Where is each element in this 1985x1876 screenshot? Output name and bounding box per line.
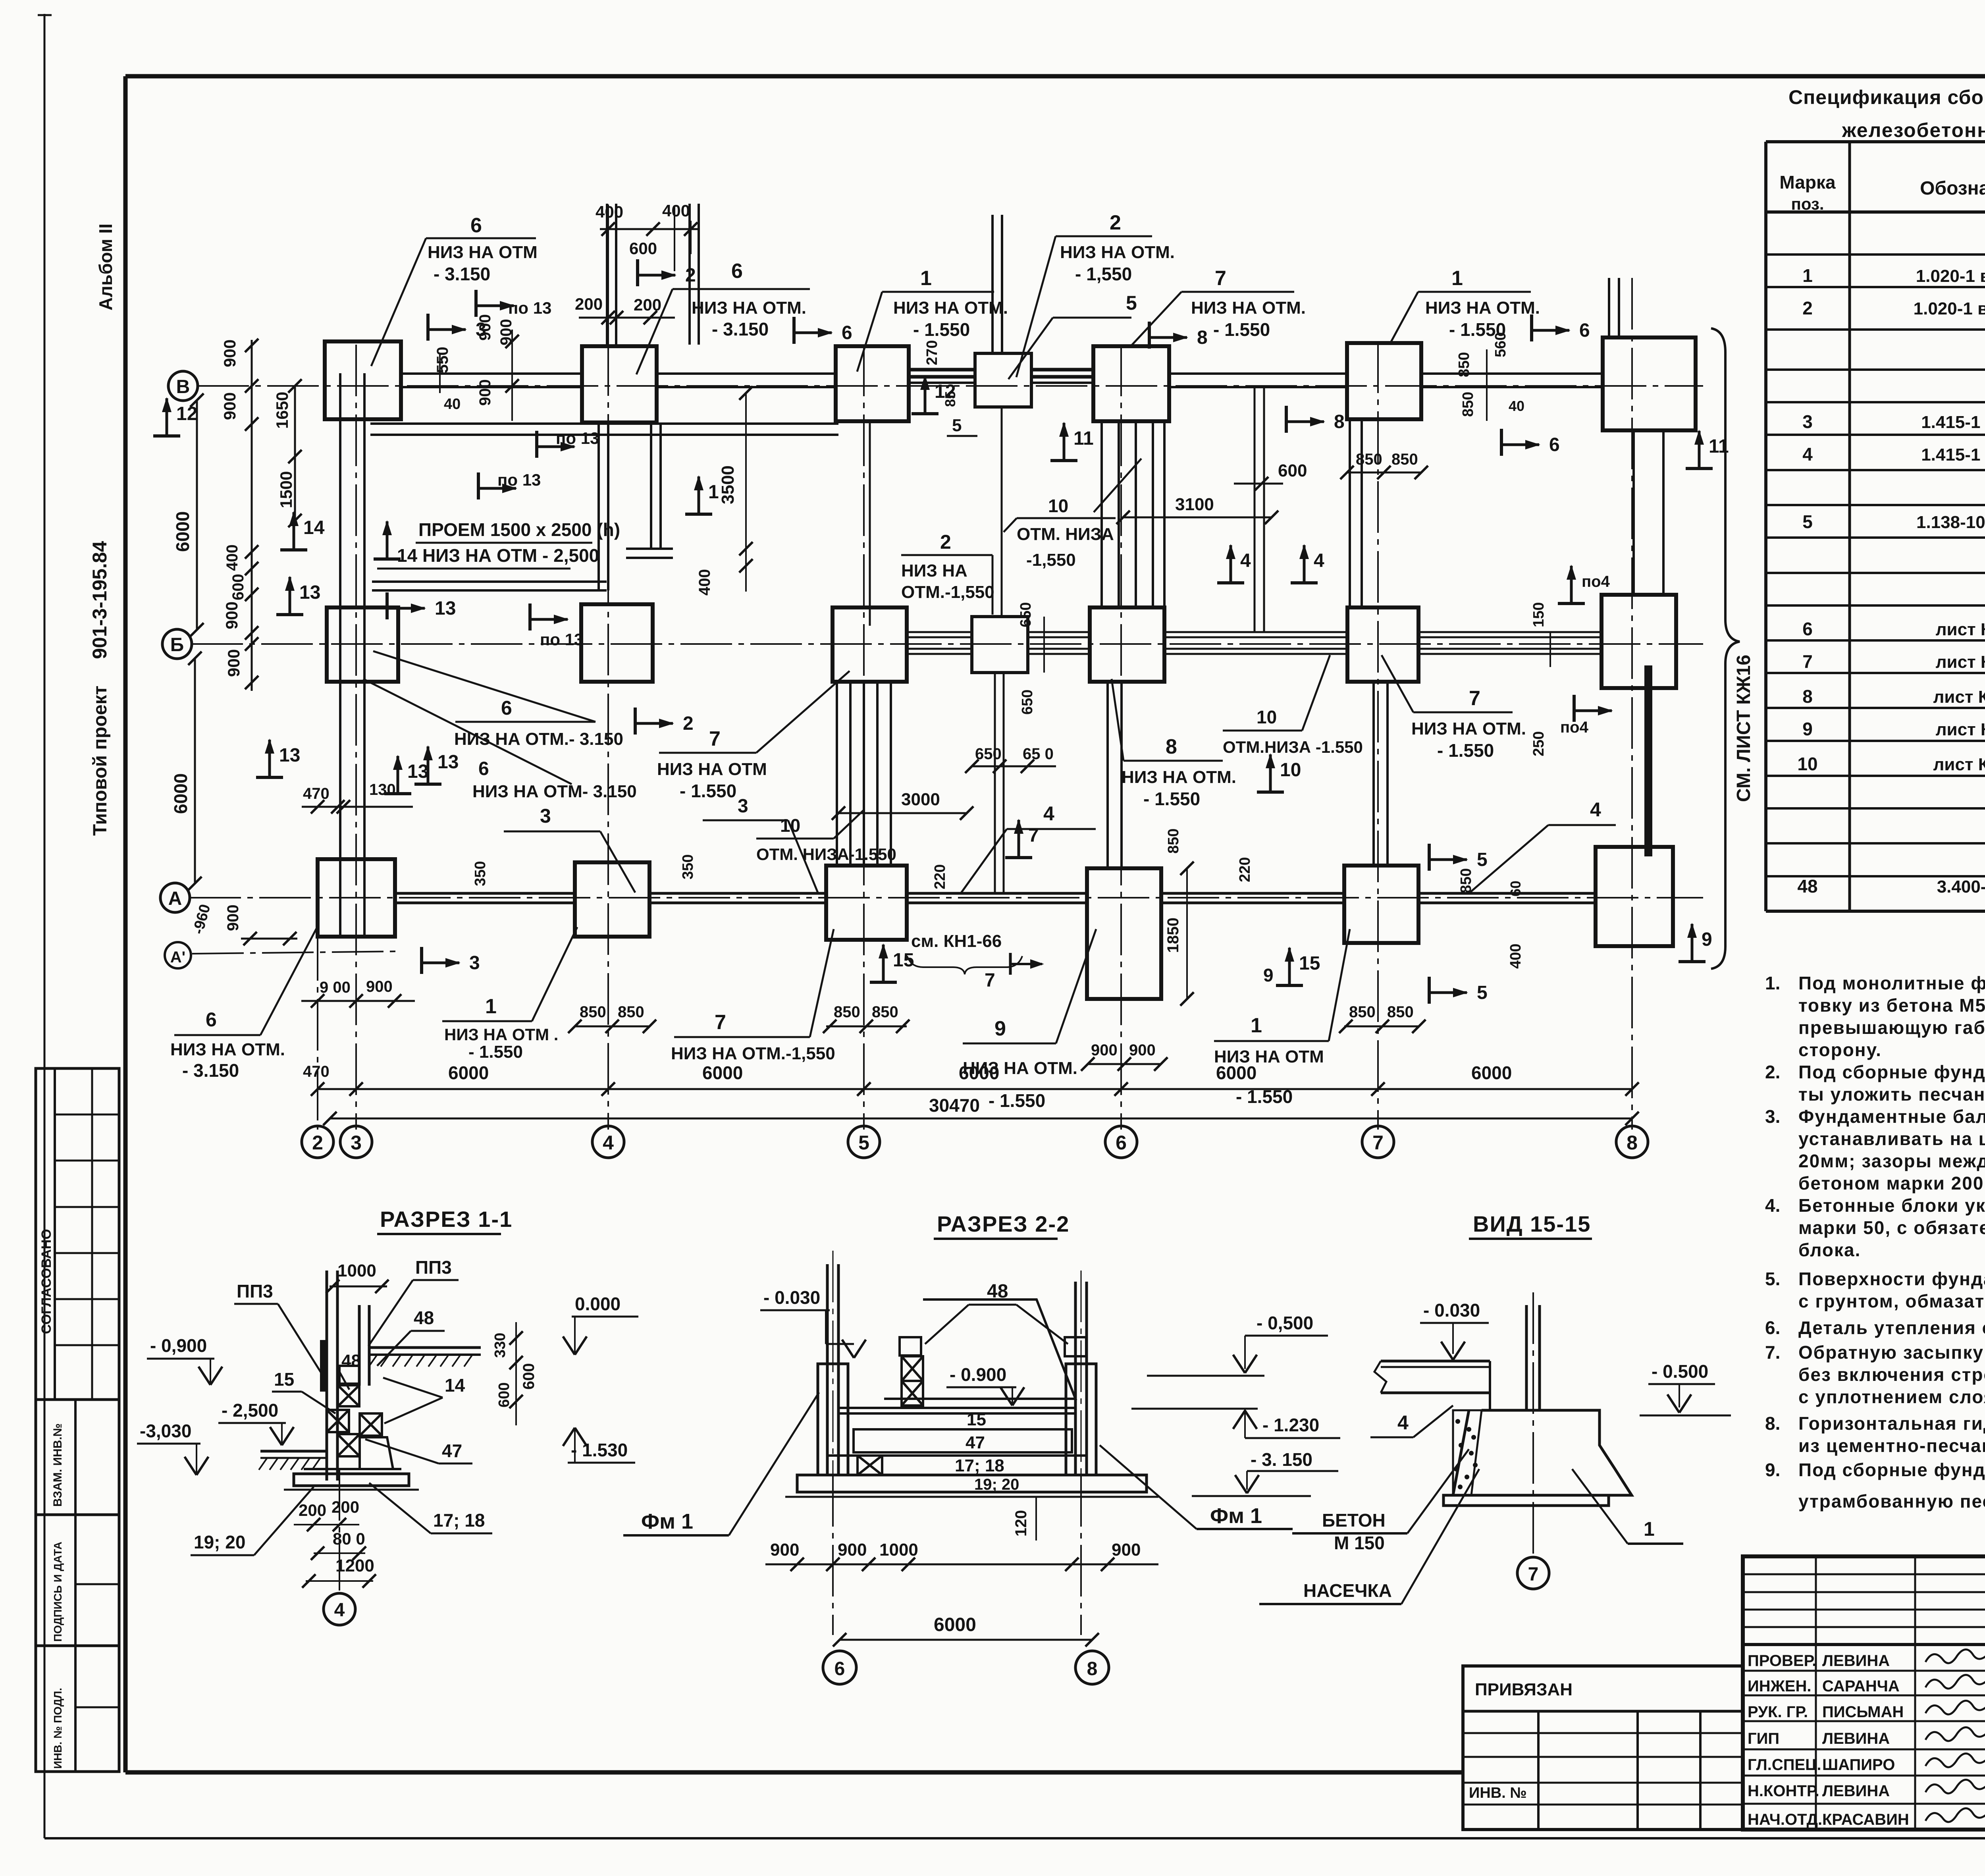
svg-text:- 1.550: - 1.550 [1143, 789, 1200, 809]
svg-text:13: 13 [279, 745, 300, 766]
dim 1850 rotated right of footing A6 [1186, 868, 1188, 999]
svg-text:1.415-1 вып. 1: 1.415-1 вып. 1 [1921, 445, 1985, 465]
wall along axis 3 double line [339, 373, 341, 937]
beams along axis A [395, 892, 575, 895]
svg-text:270: 270 [924, 340, 940, 365]
svg-text:- 0.030: - 0.030 [763, 1287, 820, 1308]
markers 5 right [1428, 844, 1431, 871]
svg-text:Фм 1: Фм 1 [641, 1510, 693, 1533]
svg-text:900: 900 [220, 339, 239, 367]
svg-text:11: 11 [1073, 428, 1094, 449]
svg-text:80 0: 80 0 [333, 1529, 365, 1548]
svg-text:6000: 6000 [1216, 1062, 1257, 1083]
section 2-2 right column [1074, 1282, 1077, 1475]
section 1-1 base slab [304, 1468, 401, 1470]
svg-text:КРАСАВИН: КРАСАВИН [1822, 1811, 1909, 1828]
beams along axis V [401, 372, 582, 375]
markers po4 right side [1558, 602, 1585, 605]
section 2-2 left column [826, 1264, 829, 1475]
svg-text:Б: Б [170, 634, 184, 656]
svg-text:5: 5 [1802, 511, 1813, 532]
svg-text:1000: 1000 [879, 1540, 918, 1560]
svg-text:5.: 5. [1765, 1269, 1780, 1289]
svg-text:А: А [168, 888, 182, 909]
svg-text:2: 2 [683, 713, 694, 734]
dim 3500 400 vertical right of room [745, 393, 747, 592]
section 2-2 slab 15 [838, 1407, 1075, 1409]
marker 6 right top [1530, 314, 1533, 341]
svg-text:400: 400 [696, 569, 713, 596]
svg-text:4: 4 [1314, 550, 1324, 571]
svg-text:2: 2 [685, 265, 696, 286]
svg-text:400: 400 [662, 201, 690, 220]
drawing frame left border [123, 76, 128, 1772]
svg-text:- 1.550: - 1.550 [913, 319, 970, 340]
svg-text:- 3.150: - 3.150 [434, 264, 490, 284]
axis line 3 [355, 345, 357, 1126]
svg-text:850: 850 [1391, 451, 1418, 468]
footing B/5 [833, 607, 907, 682]
svg-text:НИЗ НА ОТМ- 3.150: НИЗ НА ОТМ- 3.150 [472, 782, 637, 801]
svg-text:по4: по4 [1582, 573, 1610, 590]
axis line 6 [1120, 345, 1122, 1126]
label 14 niz na otm -2500 [374, 557, 401, 561]
svg-text:600: 600 [229, 574, 247, 600]
footing B/7 [1347, 607, 1418, 682]
svg-text:НИЗ НА ОТМ.-1,550: НИЗ НА ОТМ.-1,550 [671, 1044, 835, 1063]
footing V/4 [582, 346, 657, 422]
svg-text:6: 6 [731, 260, 743, 283]
svg-text:5: 5 [1126, 292, 1137, 314]
svg-text:без включения строительного: без включения строительного мусора и рас… [1798, 1364, 1985, 1385]
svg-text:- 0.500: - 0.500 [1652, 1361, 1708, 1382]
svg-text:Поверхности фундаментов и: Поверхности фундаментов и стен подвалов,… [1798, 1269, 1985, 1289]
svg-text:900: 900 [224, 649, 243, 677]
svg-text:Спецификация сборных и моно: Спецификация сборных и монолитных фундам… [1788, 86, 1985, 108]
svg-text:6000: 6000 [170, 773, 191, 814]
svg-text:ОТМ.-1,550: ОТМ.-1,550 [901, 582, 994, 602]
section 2-2 x-blocks left [902, 1356, 923, 1381]
footing V/6 [1093, 346, 1169, 421]
svg-text:Марка: Марка [1779, 172, 1836, 193]
svg-text:30470: 30470 [929, 1095, 980, 1116]
svg-text:ОТМ. НИЗА: ОТМ. НИЗА [1017, 524, 1114, 544]
marker 1 near room [685, 513, 712, 516]
svg-text:13: 13 [437, 752, 459, 773]
section 1-1 x-blocks [338, 1385, 359, 1406]
wall pair above row V at axis 4 left [606, 204, 608, 345]
axis line A [189, 897, 1703, 898]
wall pair below footing V/7 [1349, 419, 1351, 607]
svg-text:1.020-1 вып 1-1: 1.020-1 вып 1-1 [1916, 266, 1985, 286]
svg-text:сторону.: сторону. [1798, 1039, 1882, 1060]
view 15-15 foundation trapezoid [1453, 1410, 1632, 1495]
svg-text:600: 600 [1278, 461, 1307, 480]
section 2-2 slab 47 [854, 1429, 1072, 1452]
svg-text:1: 1 [708, 482, 719, 503]
svg-text:400: 400 [1507, 944, 1524, 969]
svg-text:2: 2 [1110, 211, 1121, 234]
svg-text:14 НИЗ НА ОТМ - 2,500: 14 НИЗ НА ОТМ - 2,500 [397, 545, 599, 566]
svg-text:ПИСЬМАН: ПИСЬМАН [1822, 1703, 1904, 1721]
svg-text:4: 4 [1397, 1411, 1409, 1434]
svg-text:САРАНЧА: САРАНЧА [1822, 1677, 1900, 1695]
svg-text:3100: 3100 [1175, 495, 1214, 514]
svg-text:650: 650 [1019, 690, 1036, 715]
bottom dim line 30470 [330, 1118, 1632, 1120]
footing A/4 [575, 862, 649, 937]
svg-text:по 13: по 13 [540, 630, 583, 649]
marker 12 left of axis V [153, 434, 180, 438]
svg-text:8: 8 [1334, 411, 1345, 432]
axis circle A-prime [165, 942, 191, 968]
svg-text:утрамбованную песчаную п: утрамбованную песчаную подготовку, h рав… [1798, 1491, 1985, 1512]
svg-text:3: 3 [351, 1132, 362, 1154]
outer paper edge line left [44, 14, 46, 1838]
section 1-1 small dotted block [339, 1366, 359, 1384]
section 2-2 dims 900 900 1000 900 [765, 1564, 1158, 1566]
markers 4 up pair [1217, 581, 1244, 584]
svg-text:НИЗ НА ОТМ.: НИЗ НА ОТМ. [1425, 298, 1540, 318]
svg-text:14: 14 [445, 1375, 465, 1396]
svg-text:по 13: по 13 [556, 429, 599, 447]
svg-text:7: 7 [709, 727, 721, 750]
wall pair above small footing V [991, 215, 994, 353]
view 15-15 column [1525, 1305, 1528, 1410]
svg-text:1: 1 [1802, 265, 1813, 286]
label po13 top [474, 290, 478, 317]
svg-text:850: 850 [1356, 451, 1382, 468]
svg-text:ИНВ. №: ИНВ. № [1469, 1785, 1527, 1801]
svg-text:48: 48 [1797, 876, 1817, 897]
svg-text:350: 350 [680, 854, 696, 879]
svg-text:СОГЛАСОВАНО: СОГЛАСОВАНО [39, 1229, 54, 1334]
po13 markers mid [535, 431, 538, 458]
svg-text:Под монолитные фундаменты: Под монолитные фундаменты выполнить бето… [1798, 973, 1985, 993]
top dim 200 200 [579, 317, 675, 319]
svg-text:17; 18: 17; 18 [955, 1456, 1004, 1475]
svg-text:4: 4 [1802, 444, 1813, 465]
thick wall bar axis 8 between B and A [1644, 665, 1652, 856]
svg-text:5: 5 [1477, 849, 1488, 870]
svg-text:- 1.530: - 1.530 [571, 1440, 628, 1460]
footing V/5 [836, 346, 909, 421]
axis circle V [168, 371, 198, 401]
marker 10 up [1257, 791, 1284, 794]
footing B/3 [327, 607, 398, 682]
svg-text:лист КЖ16: лист КЖ16 [1936, 720, 1985, 739]
svg-text:НИЗ НА ОТМ.: НИЗ НА ОТМ. [1060, 243, 1175, 262]
svg-text:10: 10 [1797, 754, 1817, 774]
svg-text:6: 6 [1579, 320, 1590, 341]
footing B/8 [1601, 595, 1676, 688]
room bottom wall double line [372, 580, 607, 583]
svg-text:6000: 6000 [934, 1614, 976, 1635]
svg-text:лист КЖ 15: лист КЖ 15 [1933, 687, 1985, 707]
svg-text:8: 8 [1802, 686, 1813, 707]
svg-text:12: 12 [935, 381, 956, 402]
svg-text:1500: 1500 [277, 471, 295, 508]
svg-text:- 3.150: - 3.150 [182, 1060, 239, 1081]
svg-text:- 1.550: - 1.550 [989, 1090, 1045, 1111]
left dim 6000 B-A [194, 658, 196, 883]
svg-text:8.: 8. [1765, 1413, 1780, 1434]
svg-text:7: 7 [1215, 267, 1226, 290]
svg-text:1: 1 [485, 995, 497, 1018]
room right wall pair B [650, 422, 652, 549]
svg-text:6000: 6000 [448, 1062, 489, 1083]
svg-text:900: 900 [770, 1540, 799, 1560]
svg-text:850: 850 [1456, 352, 1472, 377]
diaphragm strip axis 6 V-B [1100, 421, 1103, 607]
marker 12 lintel [912, 412, 939, 415]
svg-text:-1,550: -1,550 [1026, 550, 1076, 570]
marker 11 and label 10 otm niza [1050, 459, 1077, 462]
svg-text:лист КЖ14: лист КЖ14 [1936, 620, 1985, 639]
svg-text:900: 900 [220, 392, 239, 420]
footing A/3 [318, 859, 395, 937]
marker 3 under A [420, 947, 423, 974]
svg-text:3: 3 [469, 952, 480, 974]
svg-text:с грунтом, обмазать битум: с грунтом, обмазать битумно- латексным п… [1798, 1291, 1985, 1311]
svg-text:лист КЖ15: лист КЖ15 [1936, 652, 1985, 672]
svg-text:550: 550 [434, 347, 451, 373]
svg-text:с уплотнением слоями не б: с уплотнением слоями не более 200 мм. [1798, 1386, 1985, 1407]
svg-text:10: 10 [1280, 760, 1301, 781]
marker 6 mid V [792, 317, 796, 344]
svg-text:6: 6 [470, 214, 482, 237]
axis bottom circles 2-8 [302, 1126, 333, 1158]
svg-text:1: 1 [1451, 267, 1463, 290]
svg-text:из цементно-песчаного раств: из цементно-песчаного раствора состава 1… [1798, 1435, 1985, 1456]
dims 650 650 below small B footing [972, 765, 1056, 767]
svg-text:6000: 6000 [172, 511, 193, 552]
svg-text:бетоном марки 200.: бетоном марки 200. [1798, 1173, 1985, 1193]
svg-text:по4: по4 [1560, 719, 1589, 736]
svg-text:48: 48 [414, 1307, 434, 1328]
svg-text:20мм; зазоры между торцам: 20мм; зазоры между торцами балок и фунда… [1798, 1151, 1985, 1171]
svg-text:2: 2 [940, 531, 951, 553]
svg-text:850: 850 [1460, 392, 1476, 417]
svg-text:0.000: 0.000 [575, 1294, 621, 1314]
section 1-1 trapezoid pier [360, 1437, 393, 1469]
svg-text:250: 250 [1530, 731, 1547, 756]
marker 8 top [1148, 322, 1151, 349]
marker 3 above footing V/3 [426, 314, 430, 341]
svg-text:НИЗ НА ОТМ.: НИЗ НА ОТМ. [1411, 719, 1526, 738]
left dim chain x=634 [251, 340, 253, 691]
svg-text:900: 900 [476, 379, 494, 406]
svg-text:см. КН1-66: см. КН1-66 [911, 931, 1002, 951]
svg-text:6: 6 [834, 1658, 845, 1679]
axis line 8 [1631, 278, 1633, 1126]
marker 2 below B4 [634, 708, 637, 735]
dim 850 850 under footing V/7 [1347, 472, 1421, 474]
svg-text:- 0,900: - 0,900 [150, 1335, 207, 1356]
svg-text:8: 8 [1166, 735, 1177, 758]
svg-text:НИЗ НА ОТМ.: НИЗ НА ОТМ. [893, 298, 1008, 318]
svg-text:6: 6 [206, 1008, 217, 1031]
svg-text:Бетонные блоки укладывать: Бетонные блоки укладывать на цементно- п… [1798, 1195, 1985, 1216]
svg-text:3: 3 [738, 796, 748, 817]
left dim chain x=743 (1650/1500) [294, 386, 296, 521]
curly brace right of plan [1711, 328, 1740, 969]
svg-text:М 150: М 150 [1334, 1533, 1385, 1553]
marker 8 below V [1285, 406, 1288, 433]
left column box Soglasovano [36, 1068, 119, 1400]
view 15-15 concrete speckle strip [1453, 1410, 1482, 1495]
spec table grid [1764, 142, 1767, 911]
section 1-1 dims 330 600 600 right [515, 1322, 517, 1425]
svg-text:130: 130 [369, 781, 396, 798]
view 15-15 beam left [1381, 1360, 1490, 1363]
svg-text:8: 8 [1087, 1658, 1098, 1679]
section 2-2 left column head [818, 1364, 848, 1475]
svg-text:901-3-195.84: 901-3-195.84 [89, 541, 111, 659]
svg-text:ПРОЕМ 1500 x 2500 (h): ПРОЕМ 1500 x 2500 (h) [418, 519, 620, 540]
svg-text:600: 600 [629, 239, 657, 258]
small footing V between 5 and 6 [975, 353, 1031, 407]
svg-text:РУК. ГР.: РУК. ГР. [1748, 1703, 1808, 1721]
svg-text:6: 6 [501, 697, 512, 719]
axis circle B [162, 629, 192, 659]
svg-text:- 1.550: - 1.550 [1437, 740, 1494, 761]
svg-text:НИЗ НА ОТМ.: НИЗ НА ОТМ. [1122, 767, 1236, 787]
svg-text:Н.КОНТР.: Н.КОНТР. [1748, 1782, 1819, 1800]
room top wall double line [370, 422, 838, 425]
svg-text:1.415-1 вып. 1: 1.415-1 вып. 1 [1921, 413, 1985, 432]
svg-text:900: 900 [1129, 1041, 1156, 1059]
svg-text:- 0.030: - 0.030 [1423, 1300, 1480, 1321]
svg-text:400: 400 [224, 544, 241, 571]
svg-text:1: 1 [1251, 1014, 1262, 1037]
top dim lines 400 400 [600, 228, 698, 230]
svg-text:ГИП: ГИП [1748, 1730, 1779, 1747]
svg-text:ИНЖЕН.: ИНЖЕН. [1748, 1677, 1811, 1695]
extension verticals to circles [317, 1126, 318, 1130]
svg-text:900: 900 [366, 978, 393, 995]
wall pair above row V at axis 4 right [688, 204, 691, 345]
svg-text:А': А' [170, 949, 185, 966]
svg-text:470: 470 [303, 785, 330, 802]
svg-text:1.020-1 вып. 1-1: 1.020-1 вып. 1-1 [1914, 299, 1985, 318]
svg-text:15: 15 [893, 950, 914, 971]
svg-text:НИЗ НА ОТМ.: НИЗ НА ОТМ. [170, 1040, 285, 1059]
thin wall line below footing V/5 [869, 423, 871, 626]
svg-text:3: 3 [540, 805, 551, 827]
svg-text:НАСЕЧКА: НАСЕЧКА [1303, 1580, 1392, 1601]
svg-text:1650: 1650 [273, 392, 291, 429]
svg-text:Альбом II: Альбом II [95, 224, 116, 310]
title block signatures [1925, 1645, 1985, 1663]
svg-text:19; 20: 19; 20 [974, 1476, 1019, 1493]
view 15-15 axis circle 7 [1517, 1557, 1549, 1589]
svg-text:4.: 4. [1765, 1195, 1780, 1216]
svg-text:- 0,500: - 0,500 [1257, 1313, 1313, 1333]
top vertical dim lines [607, 221, 609, 345]
section 1-1 ground line left [260, 1450, 327, 1453]
dim 850 850 under footing A4 [575, 1026, 649, 1028]
svg-text:ИНВ. № ПОДЛ.: ИНВ. № ПОДЛ. [52, 1688, 64, 1769]
wall pair B/6 to A/6 [1106, 682, 1109, 868]
svg-text:15: 15 [967, 1410, 986, 1429]
svg-text:7: 7 [1802, 651, 1813, 672]
svg-text:ОТМ. НИЗА-1.550: ОТМ. НИЗА-1.550 [756, 845, 896, 864]
svg-text:200: 200 [299, 1501, 326, 1519]
svg-text:6000: 6000 [702, 1062, 743, 1083]
diaphragm strip axis 5 B-A [836, 682, 838, 865]
svg-text:Обратную засыпку пазух: Обратную засыпку пазух фундаментов произ… [1798, 1342, 1985, 1363]
section 1-1 floor slab right [369, 1346, 481, 1349]
svg-text:6: 6 [1116, 1132, 1127, 1154]
svg-text:ПОДПИСЬ И ДАТА: ПОДПИСЬ И ДАТА [52, 1542, 64, 1642]
svg-text:3500: 3500 [718, 465, 738, 504]
svg-text:220: 220 [932, 864, 948, 889]
svg-text:120: 120 [1012, 1510, 1030, 1537]
svg-text:железобетонных балок и пе: железобетонных балок и перемычек. [1842, 119, 1985, 141]
svg-text:9: 9 [1702, 929, 1712, 950]
svg-text:850: 850 [1349, 1003, 1376, 1021]
svg-text:ПРИВЯЗАН: ПРИВЯЗАН [1475, 1680, 1573, 1699]
svg-text:9.: 9. [1765, 1460, 1780, 1480]
svg-text:2: 2 [312, 1132, 323, 1154]
svg-text:200: 200 [634, 295, 661, 314]
svg-text:7.: 7. [1765, 1342, 1780, 1363]
svg-text:200: 200 [575, 295, 603, 313]
section 1-1 left wall [326, 1271, 328, 1481]
axis line 4 [607, 204, 609, 1126]
svg-text:9: 9 [1802, 719, 1813, 739]
bottom paper edge line [44, 1837, 1985, 1839]
svg-text:блока.: блока. [1798, 1240, 1861, 1260]
svg-text:ГЛ.СПЕЦ.: ГЛ.СПЕЦ. [1748, 1756, 1821, 1774]
svg-text:ПП3: ПП3 [237, 1281, 273, 1301]
svg-text:7: 7 [985, 970, 995, 991]
svg-text:14: 14 [303, 517, 325, 538]
dim 3000 [838, 812, 967, 814]
svg-text:- 1.550: - 1.550 [1213, 319, 1270, 340]
svg-text:- 3.150: - 3.150 [712, 319, 769, 339]
section 1-1 PP3 panel bar [320, 1340, 326, 1392]
svg-text:220: 220 [1237, 857, 1253, 882]
svg-text:НИЗ НА ОТМ.- 3.150: НИЗ НА ОТМ.- 3.150 [454, 729, 623, 749]
svg-text:1.138-10 вып. 1: 1.138-10 вып. 1 [1916, 513, 1985, 532]
svg-text:1850: 1850 [1164, 918, 1182, 953]
svg-text:6: 6 [478, 758, 489, 779]
svg-text:900: 900 [838, 1540, 867, 1560]
svg-text:3.: 3. [1765, 1106, 1780, 1127]
svg-text:НИЗ НА ОТМ.: НИЗ НА ОТМ. [1191, 298, 1306, 318]
title block top-left mini rows [1743, 1573, 1985, 1575]
svg-text:1.: 1. [1765, 973, 1780, 993]
svg-text:БЕТОН: БЕТОН [1322, 1510, 1386, 1531]
svg-text:15: 15 [274, 1369, 294, 1390]
axis line V [197, 385, 1703, 387]
svg-text:4: 4 [334, 1600, 345, 1621]
svg-text:8: 8 [1627, 1132, 1638, 1154]
svg-text:6: 6 [842, 322, 852, 343]
axis line 5 [863, 345, 865, 1126]
svg-text:13: 13 [435, 598, 456, 619]
svg-text:5: 5 [952, 416, 962, 435]
svg-text:900: 900 [1091, 1041, 1118, 1059]
footing B/6 [1090, 607, 1164, 682]
svg-text:Обозначение: Обозначение [1920, 178, 1985, 199]
marker 7 up mid A [1005, 856, 1032, 859]
svg-text:7: 7 [715, 1011, 726, 1034]
marker 6 right below [1500, 429, 1503, 456]
svg-text:9: 9 [1263, 965, 1274, 985]
